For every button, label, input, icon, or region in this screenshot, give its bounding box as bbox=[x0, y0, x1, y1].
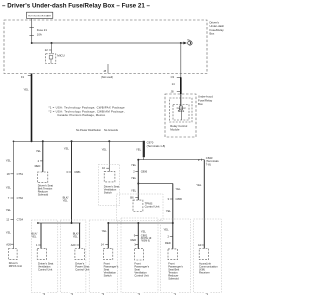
svg-text:C754: C754 bbox=[17, 217, 24, 221]
svg-text:YEL: YEL bbox=[73, 235, 79, 239]
svg-text:14: 14 bbox=[172, 82, 175, 86]
svg-text:18: 18 bbox=[7, 172, 10, 176]
svg-text:YEL: YEL bbox=[176, 187, 182, 191]
svg-text:YEL: YEL bbox=[196, 183, 202, 187]
svg-text:YEL: YEL bbox=[63, 198, 69, 202]
svg-text:7-8): 7-8) bbox=[206, 162, 211, 166]
svg-text:Fuse 21: Fuse 21 bbox=[37, 28, 48, 32]
svg-text:14: 14 bbox=[101, 243, 104, 247]
svg-text:Control Unit: Control Unit bbox=[145, 205, 160, 209]
svg-text:YEL: YEL bbox=[141, 230, 147, 234]
svg-text:– Driver's Under-dash Fuse/Rel: – Driver's Under-dash Fuse/Relay Box – F… bbox=[2, 3, 151, 10]
svg-text:Box: Box bbox=[210, 32, 215, 36]
svg-text:YEL: YEL bbox=[36, 149, 42, 153]
svg-text:Control Unit: Control Unit bbox=[38, 267, 52, 271]
svg-text:Switch: Switch bbox=[104, 273, 112, 277]
svg-text:(Not used): (Not used) bbox=[101, 75, 113, 79]
svg-text:MICU: MICU bbox=[57, 54, 64, 58]
svg-text:RED: RED bbox=[131, 238, 137, 242]
svg-text:YEL: YEL bbox=[131, 176, 137, 180]
svg-text:C751: C751 bbox=[17, 172, 24, 176]
svg-text:Solenoid: Solenoid bbox=[38, 193, 49, 197]
svg-text:B6: B6 bbox=[130, 195, 134, 199]
svg-text:B5: B5 bbox=[187, 39, 189, 41]
svg-text:MPCS Unit: MPCS Unit bbox=[9, 264, 23, 268]
svg-text:A2: A2 bbox=[198, 243, 202, 247]
svg-text:YEL: YEL bbox=[6, 159, 12, 163]
svg-text:YEL: YEL bbox=[6, 208, 12, 212]
svg-text:Switch: Switch bbox=[104, 190, 112, 194]
svg-text:C3: C3 bbox=[171, 75, 175, 79]
svg-text:YEL: YEL bbox=[24, 88, 30, 92]
svg-text:Solenoid: Solenoid bbox=[168, 276, 179, 280]
svg-text:C881: C881 bbox=[74, 170, 81, 174]
svg-text:Canada: Premium Package, Mexic: Canada: Premium Package, Mexico bbox=[57, 113, 105, 117]
svg-text:Receiver: Receiver bbox=[199, 270, 210, 274]
svg-text:(Terminals 1-8): (Terminals 1-8) bbox=[147, 144, 166, 148]
svg-text:A20: A20 bbox=[71, 243, 76, 247]
svg-text:C762: C762 bbox=[17, 196, 24, 200]
svg-text:C806: C806 bbox=[176, 197, 183, 201]
svg-text:YEL: YEL bbox=[136, 147, 142, 151]
svg-text:22: 22 bbox=[45, 48, 48, 52]
svg-text:YEL: YEL bbox=[6, 186, 12, 190]
svg-text:RED: RED bbox=[35, 164, 41, 168]
svg-text:10A: 10A bbox=[37, 32, 42, 36]
svg-text:YEL: YEL bbox=[164, 228, 170, 232]
svg-text:YEL: YEL bbox=[102, 229, 108, 233]
svg-text:10: 10 bbox=[102, 166, 105, 170]
svg-text:Control Unit: Control Unit bbox=[75, 267, 89, 271]
svg-text:HOT IN ON OR START: HOT IN ON OR START bbox=[28, 14, 52, 17]
svg-text:WSM 9): WSM 9) bbox=[142, 241, 151, 243]
svg-text:Box: Box bbox=[198, 102, 203, 106]
svg-text:C881: C881 bbox=[141, 234, 148, 238]
svg-text:C806: C806 bbox=[141, 169, 148, 173]
svg-text:12: 12 bbox=[6, 217, 9, 221]
svg-text:J8: J8 bbox=[171, 89, 174, 93]
svg-text:No Power Distribution No Gr: No Power Distribution No Grounds bbox=[76, 128, 119, 132]
svg-text:YEL: YEL bbox=[64, 147, 70, 151]
svg-text:YEL: YEL bbox=[31, 235, 37, 239]
svg-text:Module: Module bbox=[170, 127, 180, 131]
svg-text:F1: F1 bbox=[21, 75, 25, 79]
svg-text:YEL: YEL bbox=[102, 148, 108, 152]
svg-text:RED: RED bbox=[165, 241, 171, 245]
svg-text:YEL: YEL bbox=[166, 209, 172, 213]
svg-text:A26: A26 bbox=[6, 242, 11, 246]
svg-text:YEL: YEL bbox=[131, 163, 137, 167]
svg-text:YEL: YEL bbox=[131, 188, 137, 192]
svg-text:YEL: YEL bbox=[6, 230, 12, 234]
svg-text:Control Unit: Control Unit bbox=[134, 273, 148, 277]
